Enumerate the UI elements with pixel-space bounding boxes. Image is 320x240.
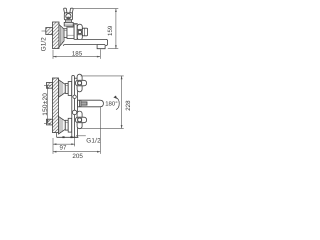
spout: top view tube with aerator (63, 39, 107, 48)
svg-text:159: 159 (107, 25, 114, 36)
dimension: 97 right extension line (74, 137, 76, 146)
node: escutcheon cone front bottom (59, 116, 66, 134)
dimension: 150±20 extension ticks (44, 86, 51, 124)
node: bottom outlet base line (57, 133, 79, 139)
node: escutcheon cone top view (59, 25, 64, 48)
dimension: 185 left extension line (52, 50, 54, 59)
dimension: 150±20 line with arrows (47, 86, 49, 124)
handle: fork prongs (64, 8, 73, 13)
svg-text:G1/2: G1/2 (86, 138, 101, 145)
node: escutcheon cone front top (59, 80, 66, 98)
svg-text:97: 97 (60, 145, 67, 152)
node: bottom supply stub (hatched) (47, 119, 53, 125)
node: faucet body top view (67, 26, 74, 39)
lever: handle front view (78, 100, 104, 107)
handle: neck band (65, 20, 71, 23)
handle: head with bar cross-section circle (64, 13, 72, 20)
dimension: 185 right extension line from spout mouth (99, 49, 101, 59)
node: bottom check-valve cross knob (75, 111, 86, 129)
dimension: 205 right extension line from lever (99, 107, 101, 154)
dimension: 228 bottom extension line (80, 127, 124, 129)
dimension: 97 line with arrows (53, 143, 75, 145)
node: top union nut (65, 82, 71, 96)
node: check-valve knob side view capsule (77, 24, 82, 40)
svg-text:180°: 180° (105, 101, 118, 108)
wire: supply stub centerline (42, 30, 47, 32)
svg-text:G1/2: G1/2 (41, 37, 48, 51)
node: top supply stub (hatched) (47, 83, 53, 89)
node: cartridge plate right of body (74, 23, 77, 41)
label: G1/2 leader line front view (76, 135, 86, 137)
dimension: 205 line with arrows (53, 151, 100, 153)
dimension: 185 line with arrows (53, 56, 100, 58)
node: inlet nut top view (64, 29, 67, 38)
dimension: 159 bottom extension line (108, 48, 119, 50)
node: bottom union nut (65, 118, 71, 132)
node: top check-valve cross knob (75, 74, 86, 92)
node: wall section (hatched) front view (53, 78, 59, 133)
handle: base band (64, 22, 73, 26)
svg-text:150±20: 150±20 (42, 93, 49, 116)
dimension: left shared extension line (97/205) (52, 138, 54, 154)
node: diverter ring on body (72, 110, 76, 114)
node: supply pipe stub (hatched) (46, 28, 53, 35)
node: faucet body column front view (72, 75, 78, 137)
dimension: 228 line with arrows (121, 76, 123, 128)
node: check-valve knob side view block (82, 28, 87, 36)
dimension: 228 top extension line (81, 75, 124, 77)
svg-text:228: 228 (125, 100, 132, 111)
dimension: 159 top extension line (73, 8, 118, 10)
node: wall section (hatched) top view (53, 22, 60, 49)
node: lever pivot screw circle (73, 95, 76, 98)
svg-text:185: 185 (72, 51, 83, 58)
svg-text:205: 205 (72, 153, 83, 160)
dimension: 159 line with arrows (115, 9, 117, 49)
